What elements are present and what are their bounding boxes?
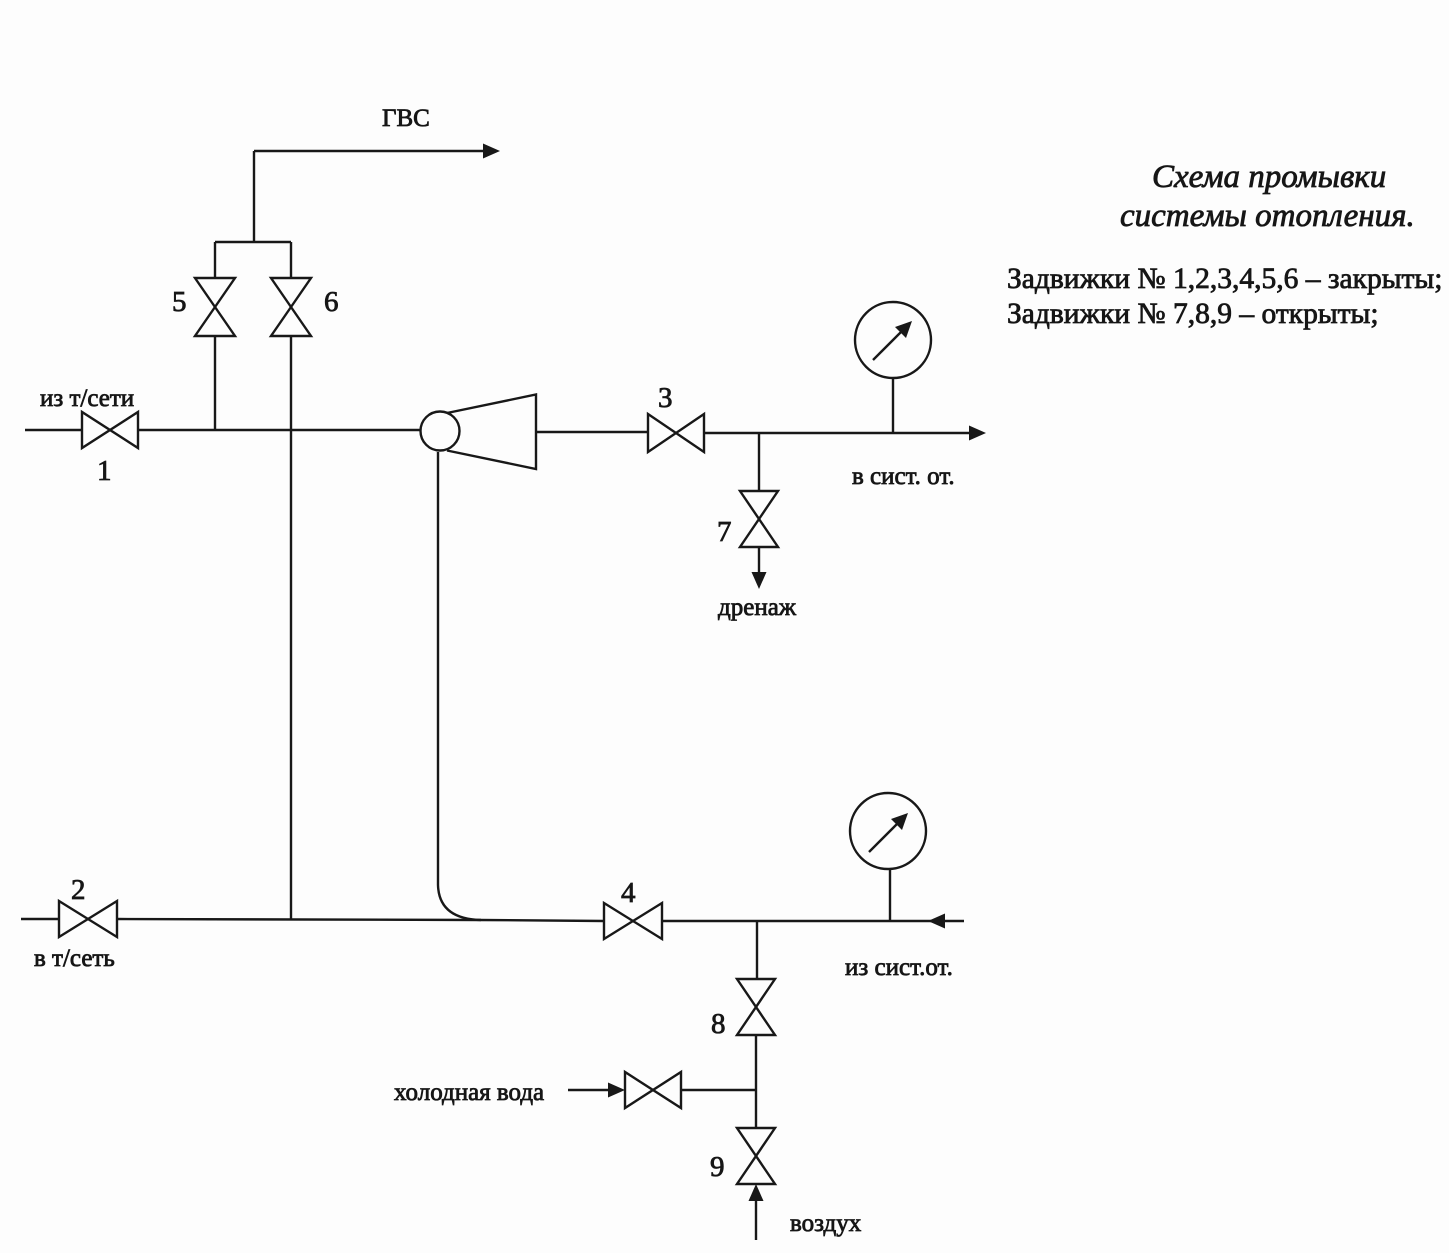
wire: return main left stub	[21, 918, 59, 920]
gauge PI1 stem	[892, 378, 894, 433]
arrowhead from heating system (left)	[928, 914, 945, 929]
wire: valve 4 to system return	[662, 920, 964, 922]
valve V2 (horizontal bowtie)	[59, 901, 117, 937]
arrowhead drain (down)	[752, 572, 767, 589]
svg-text:Задвижки № 1,2,3,4,5,6 – закры: Задвижки № 1,2,3,4,5,6 – закрыты;	[1007, 263, 1442, 295]
svg-text:Схема промывки: Схема промывки	[1152, 159, 1386, 195]
svg-text:3: 3	[658, 382, 673, 414]
svg-text:7: 7	[717, 516, 732, 548]
svg-text:воздух: воздух	[790, 1210, 862, 1237]
wire: suction curve into return main	[438, 885, 481, 920]
svg-text:4: 4	[621, 877, 636, 909]
wire: valve 8 to cold water junction and valve 9	[755, 1035, 757, 1128]
svg-text:в т/сеть: в т/сеть	[34, 945, 115, 972]
svg-text:6: 6	[324, 286, 339, 318]
gauge PI1 body	[855, 302, 931, 378]
valve V8 (vertical bowtie)	[737, 979, 775, 1035]
gauge PI2 needle	[869, 822, 899, 852]
svg-text:в сист. от.: в сист. от.	[852, 463, 955, 490]
wire: GVS riser vertical	[253, 151, 255, 242]
wire: supply main left stub	[25, 429, 82, 431]
wire: drop to valve 7	[758, 433, 760, 491]
wire: ejector suction downcomer	[437, 452, 439, 885]
wire: GVS outlet horizontal arrow line	[254, 150, 486, 152]
wire: ejector outlet to valve 3	[536, 431, 648, 433]
svg-text:9: 9	[710, 1151, 725, 1183]
wire: drop to valve 8	[756, 921, 758, 979]
svg-text:дренаж: дренаж	[718, 594, 797, 621]
svg-text:из т/сети: из т/сети	[40, 385, 134, 412]
wire: cold water valve to junction	[681, 1089, 756, 1091]
gauge PI2 stem	[889, 869, 891, 921]
ejector nozzle circle	[421, 412, 460, 451]
gauge PI2 body	[850, 793, 926, 869]
arrowhead cold water (right)	[608, 1083, 625, 1098]
arrowhead GVS (right)	[483, 144, 500, 159]
arrowhead to heating system (right)	[969, 426, 986, 441]
gauge PI1 needle	[873, 330, 903, 360]
valve cold water (horizontal bowtie, unnumbered)	[625, 1072, 681, 1108]
wire: supply main valve1 to ejector	[138, 429, 420, 431]
wire: leg down to valve 5	[214, 242, 216, 278]
svg-text:2: 2	[71, 874, 86, 906]
wire: valve 3 to system supply arrow	[704, 432, 970, 434]
wire: valve 5 bottom to supply main	[214, 336, 216, 430]
valve V7 (vertical bowtie)	[740, 491, 778, 547]
svg-text:1: 1	[97, 455, 112, 487]
svg-text:из сист.от.: из сист.от.	[845, 954, 953, 981]
valve V3 (horizontal bowtie)	[648, 414, 704, 452]
wire: return main to valve 4	[117, 919, 604, 921]
svg-text:Задвижки № 7,8,9 – открыты;: Задвижки № 7,8,9 – открыты;	[1007, 298, 1379, 330]
valve V1 (horizontal bowtie)	[82, 412, 138, 448]
valve V6 (vertical bowtie)	[271, 278, 311, 336]
svg-text:5: 5	[172, 286, 187, 318]
wire: leg down to valve 6	[290, 242, 292, 278]
wire: header bridge over valves 5 and 6	[215, 241, 291, 243]
valve V5 (vertical bowtie)	[195, 278, 235, 336]
svg-text:системы отопления.: системы отопления.	[1120, 198, 1415, 234]
wire: valve 7 to drain	[758, 547, 760, 572]
valve V4 (horizontal bowtie)	[604, 903, 662, 939]
gauge PI2 needle arrowhead	[891, 813, 908, 830]
svg-text:8: 8	[711, 1008, 726, 1040]
arrowhead air (up into valve 9)	[749, 1184, 764, 1201]
ejector diffuser cone	[447, 395, 536, 470]
valve V9 (vertical bowtie)	[737, 1128, 775, 1184]
gauge PI1 needle arrowhead	[895, 321, 912, 338]
wire: cold water inlet stub	[568, 1089, 610, 1091]
wire: air inlet stub	[755, 1201, 757, 1240]
svg-text:холодная вода: холодная вода	[394, 1079, 544, 1106]
wire: valve 6 bottom down to return main	[290, 336, 292, 919]
svg-text:ГВС: ГВС	[382, 105, 430, 132]
